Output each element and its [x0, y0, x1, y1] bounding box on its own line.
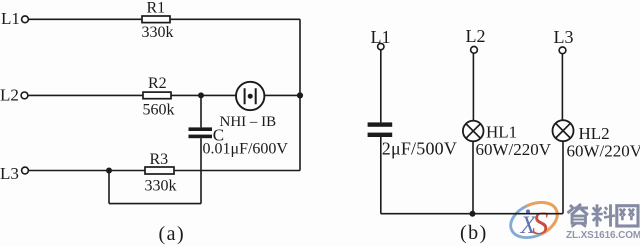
- svg-text:60W/220V: 60W/220V: [476, 140, 552, 159]
- svg-text:L1: L1: [371, 27, 391, 47]
- wire L3 down to lamp HL2: [561, 54, 563, 121]
- svg-text:R3: R3: [150, 151, 169, 168]
- wire L2 down to lamp HL1: [472, 53, 474, 121]
- junction dot at R2/C node: [198, 92, 204, 98]
- wire HL1 down: [472, 141, 474, 213]
- node L2 terminal: [21, 92, 28, 99]
- junction dot bottom rail: [470, 211, 476, 217]
- wire capacitor down to bottom rail: [380, 137, 382, 214]
- wire bottom rail (b): [381, 213, 563, 215]
- resistor R3: [145, 167, 174, 174]
- svg-text:0.01μF/600V: 0.01μF/600V: [203, 141, 289, 158]
- svg-text:L1: L1: [1, 9, 20, 28]
- watermark logo ellipse ring: [505, 196, 563, 245]
- watermark char 料: [592, 204, 616, 226]
- watermark char 网: [617, 206, 638, 226]
- svg-text:S: S: [532, 206, 549, 242]
- capacitor C plates: [189, 127, 213, 131]
- svg-text:R1: R1: [147, 0, 166, 16]
- junction dot at right rail: [297, 92, 303, 98]
- wire HL2 down: [562, 141, 564, 214]
- wire R2 to neon lamp: [171, 94, 236, 96]
- wire L1 down to capacitor: [380, 50, 382, 123]
- lamp HL1: [463, 121, 484, 142]
- svg-text:HL2: HL2: [579, 124, 610, 143]
- svg-text:NHI – IB: NHI – IB: [220, 114, 277, 130]
- resistor R2: [143, 92, 171, 99]
- wire right rail: [299, 19, 301, 170]
- capacitor C2 plates: [368, 122, 393, 126]
- svg-text:L2: L2: [466, 26, 486, 46]
- watermark char 资: [568, 204, 589, 227]
- wire bypass up to L3: [108, 171, 110, 204]
- node L2 terminal (b): [471, 46, 478, 53]
- wire L1 to R1: [28, 18, 142, 20]
- svg-text:HL1: HL1: [486, 122, 517, 141]
- node L3 terminal (b): [559, 47, 566, 54]
- wire L2 to R2: [28, 94, 143, 96]
- lamp HL2: [553, 120, 574, 141]
- svg-text:L3: L3: [554, 27, 574, 47]
- resistor R1: [142, 16, 170, 23]
- node L3 terminal: [22, 167, 29, 174]
- wire R1 to right rail: [170, 18, 300, 20]
- wire bypass bottom: [109, 203, 201, 205]
- svg-text:(b): (b): [460, 222, 488, 244]
- svg-text:330k: 330k: [142, 24, 174, 41]
- svg-text:R2: R2: [148, 75, 167, 92]
- svg-text:60W/220V: 60W/220V: [567, 142, 640, 161]
- wire L3 to R3: [28, 170, 145, 172]
- wire neon to right rail: [264, 94, 300, 96]
- svg-text:(a): (a): [159, 223, 186, 245]
- wire R3 to right rail: [174, 170, 300, 172]
- neon lamp NHI-IB: [236, 82, 264, 110]
- svg-text:330k: 330k: [145, 177, 177, 194]
- watermark dot above X: [526, 209, 530, 213]
- wire capacitor down: [200, 138, 202, 203]
- svg-text:L2: L2: [0, 85, 19, 104]
- wire node to capacitor C: [200, 95, 202, 127]
- svg-text:560k: 560k: [143, 101, 175, 118]
- node L1 terminal (b): [378, 43, 384, 49]
- svg-text:2μF/500V: 2μF/500V: [382, 139, 457, 159]
- node L1 terminal: [22, 16, 29, 23]
- svg-text:L3: L3: [0, 164, 19, 183]
- junction dot on L3 line: [106, 168, 112, 174]
- svg-text:ZL.XS1616.COM: ZL.XS1616.COM: [566, 230, 640, 241]
